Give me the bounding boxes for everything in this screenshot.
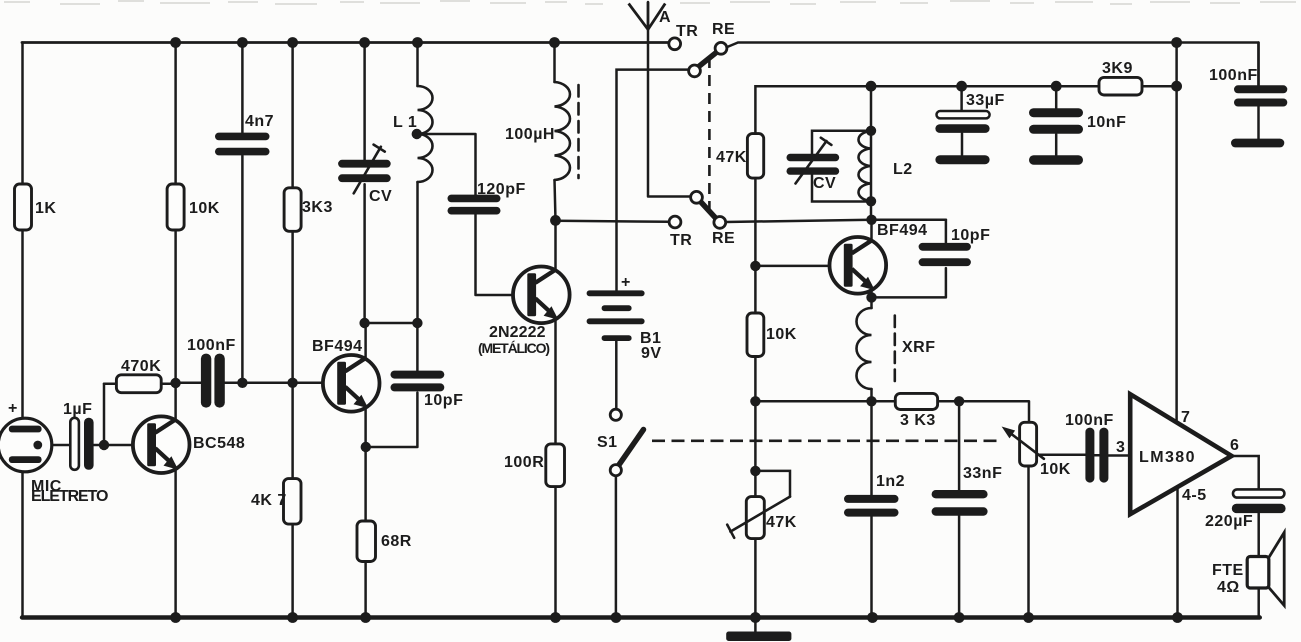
wire 10nF stub	[1055, 86, 1058, 155]
node BC548 input	[99, 440, 109, 450]
wire 3K3 / 4K7 branch vertical	[291, 43, 294, 619]
node BF494b emitter	[866, 292, 876, 302]
transistor BF494 a	[323, 355, 380, 412]
transistor BF494 b	[830, 237, 887, 294]
svg-text:120pF: 120pF	[477, 181, 526, 198]
wire battery negative to S1	[615, 341, 618, 618]
svg-text:TR: TR	[676, 23, 698, 40]
node receiver rail at 33uF	[956, 81, 967, 92]
wire 47K / 10K / 47K-pot vertical	[754, 134, 757, 619]
inductor 100uH core dashed line	[577, 85, 580, 178]
wire left branch vertical through 1K and MIC	[21, 43, 24, 619]
wire ground symbol stub	[754, 618, 757, 633]
resistor 3K3 b body (horizontal)	[895, 393, 937, 409]
wire XRF to 401 node	[870, 297, 873, 401]
wire 33uF stub	[960, 86, 963, 155]
svg-text:10K: 10K	[766, 326, 797, 343]
wire LM380 pin 6 output to 220uF	[1232, 456, 1259, 489]
switch lever TR/RE upper	[698, 52, 718, 68]
pivot upper (to battery)	[689, 65, 701, 77]
microphone MIC ELETRETO	[0, 418, 52, 472]
node top rail at CV1	[359, 37, 370, 48]
svg-text:100nF: 100nF	[187, 337, 236, 354]
node ground rail at 33nF	[954, 612, 965, 623]
resistor 47K body	[747, 134, 763, 179]
capacitor 1uF plates (electrolytic, hollow + plate)	[70, 418, 79, 470]
dashed mechanical link TR/RE switch sections	[708, 57, 711, 219]
node BF494a emitter	[361, 442, 371, 452]
node ground rail at 10K pot	[1023, 612, 1034, 623]
wire top supply rail (right, RE side)	[726, 43, 1259, 86]
wire 10pF b branch	[872, 220, 946, 298]
wire coupling 100nF node row to BF494a base	[176, 382, 335, 385]
resistor 100R body	[546, 444, 565, 487]
node receiver rail end	[1171, 81, 1182, 92]
svg-text:10nF: 10nF	[1087, 114, 1126, 131]
wire 47K pot wiper rheostat link	[755, 471, 790, 497]
svg-text:100nF: 100nF	[1065, 412, 1114, 429]
wire 68R to ground rail	[364, 447, 367, 618]
capacitor 1n2 plates	[844, 495, 899, 503]
wire antenna down lead	[648, 2, 691, 197]
node ground rail at S1	[611, 612, 622, 623]
svg-text:100µH: 100µH	[505, 126, 555, 143]
transistor BC548	[133, 416, 190, 473]
wire bottom ground rail	[22, 615, 1260, 619]
svg-text:RE: RE	[712, 21, 735, 38]
wire transmitter output to TR contact	[556, 221, 670, 222]
wire LM380 pin 7 supply vertical	[1175, 43, 1178, 422]
svg-text:33nF: 33nF	[963, 465, 1002, 482]
node detector row at 33nF	[954, 396, 964, 406]
svg-text:47K: 47K	[766, 514, 797, 531]
transistor 2N2222	[513, 267, 570, 324]
node ground rail at pin 4-5	[1172, 612, 1183, 623]
svg-text:100R: 100R	[504, 454, 544, 471]
svg-text:BF494: BF494	[312, 338, 363, 355]
svg-text:2N2222: 2N2222	[489, 324, 546, 341]
svg-text:S1: S1	[597, 434, 618, 451]
trimmer arrow of CV2	[796, 138, 832, 184]
speaker FTE 4R	[1247, 533, 1284, 606]
svg-text:4n7: 4n7	[245, 113, 274, 130]
wire L2 branch vertical	[870, 86, 873, 220]
node L2 bottom	[866, 196, 876, 206]
inductor L1 (tapped coil)	[418, 86, 433, 182]
svg-text:BC548: BC548	[193, 435, 245, 452]
wire BF494b collector/emitter vertical	[870, 220, 873, 298]
node top rail at 100uH	[549, 37, 560, 48]
svg-text:6: 6	[1230, 437, 1239, 454]
resistor 3K9 body (horizontal)	[1099, 77, 1142, 95]
capacitor 100nF d plates	[1234, 85, 1287, 93]
wiper arrow of 10K pot	[1007, 431, 1044, 459]
contact TR upper	[669, 38, 681, 50]
svg-text:3 K3: 3 K3	[900, 412, 936, 429]
node ground rail at 100R	[550, 612, 561, 623]
svg-text:10K: 10K	[189, 200, 220, 217]
resistor 3K3 body	[284, 188, 301, 232]
svg-text:10pF: 10pF	[424, 392, 463, 409]
capacitor 4n7 plates	[215, 133, 270, 141]
wire volume to 100nF to LM380 pin 3	[1037, 454, 1130, 457]
wire BF494b base lead	[755, 265, 842, 268]
node top rail at 3K3	[287, 37, 298, 48]
svg-text:4-5: 4-5	[1182, 487, 1207, 504]
svg-text:CV: CV	[813, 175, 836, 192]
contact RE upper	[715, 42, 727, 54]
svg-text:1n2: 1n2	[876, 473, 905, 490]
svg-text:(METÁLICO): (METÁLICO)	[478, 340, 550, 356]
resistor 10K body	[167, 184, 184, 230]
svg-text:XRF: XRF	[902, 339, 936, 356]
inductor XRF choke coil	[857, 308, 872, 389]
scan noise speckle along top edge	[4, 1, 1296, 4]
resistor 470K body (horizontal)	[116, 375, 161, 393]
wire 100uH branch top	[555, 43, 556, 221]
svg-text:10pF: 10pF	[951, 227, 990, 244]
node base row at 3K3	[287, 378, 297, 388]
node ground rail at 47K pot	[750, 612, 761, 623]
ground plate below 100nF d	[1231, 139, 1284, 148]
arrowhead of 10K pot wiper	[1002, 427, 1016, 439]
trimmer arrow of CV1	[354, 145, 385, 194]
svg-text:CV: CV	[369, 188, 392, 205]
svg-text:3K9: 3K9	[1102, 60, 1133, 77]
wire LM380 pin 4-5 to ground rail	[1176, 487, 1179, 618]
switch lever TR/RE lower	[700, 201, 717, 220]
svg-text:1µF: 1µF	[63, 401, 92, 418]
node L1 tap	[412, 129, 422, 139]
svg-text:L 1: L 1	[393, 114, 417, 131]
svg-text:470K: 470K	[121, 358, 161, 375]
svg-text:RE: RE	[712, 230, 735, 247]
svg-text:220µF: 220µF	[1205, 513, 1253, 530]
node ground rail at BC548	[170, 612, 181, 623]
antenna A symbol	[629, 2, 666, 30]
wire 10K / BC548 collector vertical	[174, 43, 177, 619]
capacitor 10pF b plates	[919, 243, 971, 251]
wire 33nF branch	[958, 401, 961, 618]
capacitor 120pF plates	[448, 195, 501, 203]
node 470K right / collector	[170, 378, 180, 388]
node detector row left	[750, 396, 760, 406]
node 47K bottom / base b	[750, 261, 760, 271]
resistor 4K7 body	[284, 479, 302, 524]
svg-text:47K: 47K	[716, 149, 747, 166]
contact RE lower	[714, 217, 726, 229]
potentiometer 47K body	[746, 497, 764, 539]
wire CV2 parallel box	[812, 131, 871, 202]
node ground rail at 68R	[360, 612, 371, 623]
node top rail at 4n7	[237, 37, 248, 48]
contact TR lower	[669, 216, 681, 228]
switch S1 top contact	[610, 409, 621, 420]
wire tank bottom joining CV1 and L1	[365, 322, 418, 325]
capacitor CV1 plates	[338, 160, 391, 168]
resistor 1K body	[15, 184, 32, 230]
svg-text:7: 7	[1181, 409, 1190, 426]
wire 220uF to speaker	[1257, 514, 1260, 558]
inductor XRF core dashed line	[893, 316, 896, 386]
svg-text:ELETRETO: ELETRETO	[31, 488, 109, 505]
trimmer arrow of 47K pot	[727, 497, 790, 538]
svg-text:33µF: 33µF	[966, 92, 1005, 109]
svg-text:3: 3	[1116, 439, 1125, 456]
node 47K pot wiper tie	[750, 466, 760, 476]
wire L1 branch vertical	[416, 43, 419, 324]
capacitor 33nF plates	[932, 490, 988, 498]
svg-text:FTE: FTE	[1212, 562, 1244, 579]
capacitor 100nF c plates (vertical, LM380 input)	[1085, 428, 1094, 483]
svg-text:10K: 10K	[1040, 461, 1071, 478]
svg-text:+: +	[8, 400, 18, 417]
svg-text:TR: TR	[670, 232, 692, 249]
wire RE contact to receiver tank and 10pF b	[726, 220, 946, 222]
ground plate below 10nF	[1029, 155, 1083, 165]
svg-text:3K3: 3K3	[302, 199, 333, 216]
wire CV1 branch vertical	[363, 43, 366, 324]
node ground rail at 4K7	[287, 612, 298, 623]
op-amp U1 LM380 triangle	[1130, 394, 1231, 514]
node 2N2222 collector / 100uH	[550, 215, 561, 226]
node tank bottom right	[412, 318, 422, 328]
switch lever S1	[619, 430, 644, 466]
capacitor 10nF plates	[1029, 108, 1083, 117]
wire L1 tap to 120pF to 2N2222 base	[417, 134, 526, 295]
wire battery positive to switch pivot	[617, 70, 689, 291]
svg-text:+: +	[621, 274, 631, 291]
wire speaker return to ground rail	[1257, 587, 1260, 618]
node receiver rail at 10nF	[1051, 81, 1062, 92]
capacitor 220uF plates (electrolytic hollow top)	[1233, 489, 1284, 497]
ground plate below 33uF	[935, 155, 989, 164]
wire 100nF d from top rail corner	[1257, 43, 1260, 139]
capacitor CV2 plates	[787, 154, 840, 161]
wire MIC output to 1uF to BC548 base node	[38, 384, 145, 445]
wire 470K leads	[104, 382, 176, 385]
node tank bottom left	[359, 318, 369, 328]
inductor L2 coil	[858, 131, 871, 201]
wire 10K pot to ground rail	[1027, 466, 1030, 618]
wire 10pF a branch	[366, 323, 418, 447]
svg-text:1K: 1K	[35, 200, 56, 217]
svg-text:L2: L2	[893, 161, 913, 178]
svg-text:68R: 68R	[381, 533, 412, 550]
wire 1n2 branch	[870, 401, 873, 618]
ground bar symbol below bottom rail	[726, 632, 791, 642]
wire 2N2222 collector/emitter vertical with 100R	[554, 220, 557, 618]
switch S1 bottom contact	[610, 465, 621, 476]
svg-text:LM380: LM380	[1139, 449, 1195, 466]
wire 4n7 branch vertical	[241, 43, 244, 383]
node detector row at XRF	[866, 396, 876, 406]
node top rail at 10K	[170, 37, 181, 48]
inductor 100uH RF choke coil	[555, 82, 570, 180]
potentiometer 10K body	[1020, 422, 1037, 466]
wire BF494a collector/emitter vertical	[364, 323, 367, 447]
resistor 68R body	[357, 521, 376, 562]
node top rail at pin7 branch	[1171, 37, 1182, 48]
wire top supply rail (left, TR side)	[22, 41, 669, 44]
battery B1 plates	[587, 290, 645, 341]
pivot lower (to antenna)	[691, 191, 703, 203]
node base row at 4n7	[237, 378, 247, 388]
svg-text:9V: 9V	[641, 345, 662, 362]
node receiver rail at L2	[866, 81, 877, 92]
capacitor 10pF a plates	[391, 371, 445, 379]
capacitor 100nF a plates (vertical)	[201, 354, 211, 408]
node BF494b collector	[866, 215, 876, 225]
svg-text:4Ω: 4Ω	[1217, 579, 1240, 596]
dashed mechanical link S1 to volume pot	[652, 439, 1001, 442]
svg-text:A: A	[659, 9, 671, 26]
wire receiver supply rail y=86	[755, 86, 1176, 133]
svg-text:4K 7: 4K 7	[251, 492, 287, 509]
node L2 top	[866, 126, 876, 136]
node top rail at L1	[412, 37, 423, 48]
node ground rail at 1n2	[867, 612, 878, 623]
svg-text:100nF: 100nF	[1209, 67, 1258, 84]
resistor 10K b body	[747, 313, 764, 357]
svg-text:BF494: BF494	[877, 222, 928, 239]
wire receiver detector row y=401	[755, 401, 1029, 422]
capacitor 33uF plates (electrolytic hollow top)	[937, 111, 990, 118]
